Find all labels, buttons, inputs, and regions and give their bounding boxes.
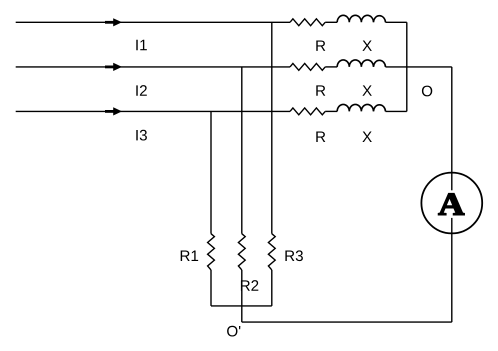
- wire right corner down to ammeter: [451, 67, 453, 190]
- node O': [227, 326, 240, 337]
- label I1: [136, 40, 147, 50]
- arrow I1: [105, 18, 122, 26]
- wire branch 2 to right corner: [386, 66, 452, 68]
- label X branch 1: [362, 40, 371, 50]
- wire dropper from line 2 to R2: [241, 67, 243, 234]
- inductor X branch 1: [337, 15, 385, 22]
- resistor R branch 3: [290, 108, 325, 115]
- label R1: [181, 251, 198, 261]
- wire resistor to inductor branch 3: [325, 110, 337, 112]
- wire inductor 3 to bus: [386, 110, 407, 112]
- wire star-point bar: [211, 305, 272, 307]
- wire phase line 2: [16, 66, 290, 68]
- wire inductor 1 to bus: [386, 21, 407, 23]
- wire R2 bottom: [241, 270, 243, 322]
- label X branch 3: [362, 132, 371, 142]
- resistor R branch 2: [290, 63, 325, 70]
- wire R3 bottom: [271, 270, 273, 306]
- wire phase line 3: [16, 110, 290, 112]
- wire dropper from line 3 to R1: [210, 111, 212, 233]
- label R branch 2: [316, 85, 325, 95]
- ammeter A: [421, 173, 482, 234]
- label X branch 2: [362, 85, 371, 95]
- label I2: [136, 85, 147, 96]
- wire R1 bottom: [210, 270, 212, 306]
- arrow I2: [105, 63, 122, 71]
- wire ammeter down to bottom return: [451, 218, 453, 322]
- wire phase line 1: [16, 21, 290, 23]
- resistor R branch 1: [290, 19, 325, 26]
- resistor R3: [268, 234, 275, 270]
- label R branch 1: [316, 40, 325, 50]
- wire resistor to inductor branch 2: [325, 66, 337, 68]
- node O: [422, 86, 432, 97]
- label I3: [136, 130, 147, 141]
- inductor X branch 2: [337, 60, 385, 67]
- wire resistor to inductor branch 1: [325, 21, 337, 23]
- wire bottom return: [242, 321, 452, 323]
- resistor R1: [208, 234, 215, 270]
- arrow I3: [105, 107, 122, 115]
- wire neutral bus: [406, 22, 408, 111]
- label R3: [285, 250, 303, 261]
- label R branch 3: [316, 132, 325, 142]
- wire dropper from line 1 to R3: [271, 22, 273, 233]
- label R2: [241, 280, 258, 291]
- inductor X branch 3: [337, 104, 385, 111]
- resistor R2: [238, 234, 245, 270]
